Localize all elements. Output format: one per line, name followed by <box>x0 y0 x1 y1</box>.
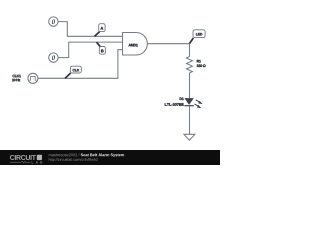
net flag A text <box>101 27 104 30</box>
clock source CLK1 circle <box>28 73 38 83</box>
net flag A leader <box>95 32 100 37</box>
footer CircuitLab logo mark block <box>37 155 42 160</box>
net flag CLK text <box>73 69 80 71</box>
footer bar <box>0 150 220 165</box>
footer CircuitLab logo CIRCUIT <box>10 155 36 160</box>
footer CircuitLab logo wire glyph <box>10 161 31 163</box>
net flag LED box <box>193 30 205 38</box>
resistor R1 zigzag <box>187 56 193 73</box>
wire R1 to LED diode D1 <box>189 73 191 98</box>
value 10 Hz <box>12 79 20 82</box>
footer CircuitLab logo LAB <box>32 161 43 163</box>
value 330 Ohm <box>197 64 206 67</box>
label R1 <box>197 60 201 62</box>
ground symbol <box>184 134 195 140</box>
AND gate AND1 body <box>123 33 148 56</box>
net flag CLK leader <box>65 73 71 78</box>
label AND1 <box>129 44 138 47</box>
net flag CLK box <box>70 66 81 73</box>
value LTL-307EE <box>165 103 184 106</box>
LED light arrow 1 <box>196 100 201 103</box>
net flag A box <box>99 24 105 32</box>
wire CLK1 to AND1 input 3 <box>38 50 123 79</box>
label D1 <box>180 98 184 100</box>
LED D1 cathode bar <box>184 105 193 107</box>
footer url text <box>49 158 98 161</box>
value 0 of V2 <box>52 55 55 60</box>
net flag B leader <box>97 42 101 47</box>
LED diode D1 triangle <box>184 98 193 105</box>
clock waveform glyph <box>29 76 36 80</box>
wire V1 to AND1 input 1 <box>58 22 122 37</box>
wire V2 to AND1 input 2 <box>58 42 122 58</box>
value 0 of V1 <box>52 19 55 24</box>
footer author text <box>49 153 80 156</box>
wire D1 to ground <box>189 106 191 134</box>
net flag LED text <box>196 33 202 35</box>
net flag LED leader <box>190 38 194 44</box>
logic source V2 (0) <box>49 53 58 62</box>
net flag B box <box>99 47 105 55</box>
wire node LED down to resistor R1 <box>189 44 191 57</box>
label CLK1 <box>13 75 21 78</box>
logic source V1 (0) <box>49 17 58 26</box>
footer title text <box>81 153 124 157</box>
LED light arrow 2 <box>195 104 200 107</box>
wire AND1 output to node LED <box>147 43 189 45</box>
net flag B text <box>101 50 103 53</box>
